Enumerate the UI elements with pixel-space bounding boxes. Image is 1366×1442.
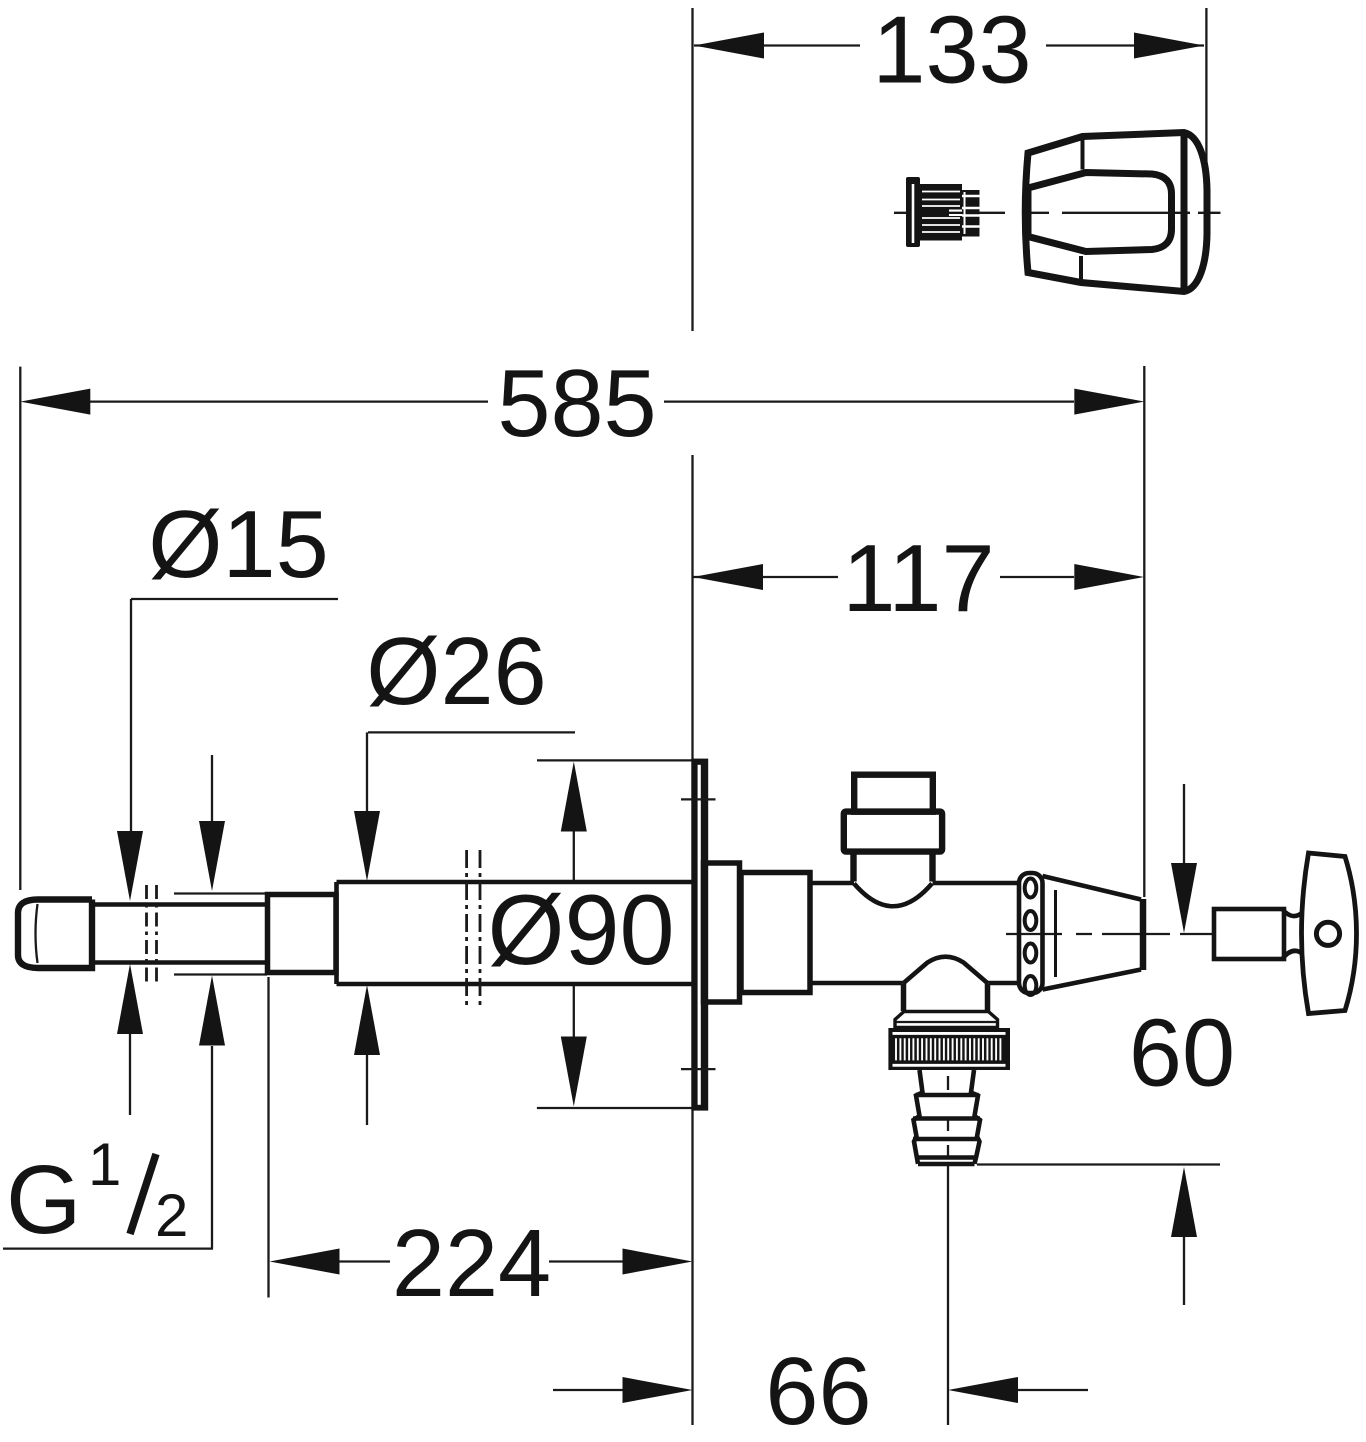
- break lines D26 pipe: [467, 850, 480, 1008]
- break lines left pipe: [147, 885, 157, 984]
- svg-text:224: 224: [392, 1211, 551, 1317]
- svg-text:66: 66: [765, 1339, 871, 1442]
- knurled nut: [888, 1028, 1010, 1070]
- label D15 with leader: [117, 492, 338, 1115]
- cartridge body: [920, 184, 962, 241]
- dimension D90: [487, 760, 694, 1108]
- svg-text:133: 133: [872, 0, 1031, 104]
- bottom branch arch: [903, 957, 988, 984]
- dimension 585: [20, 351, 1144, 897]
- bushing 2: [741, 873, 810, 993]
- knob grip recess: [1028, 173, 1172, 252]
- svg-text:Ø90: Ø90: [487, 874, 674, 985]
- ball race: [1019, 873, 1043, 995]
- bushing 1: [704, 863, 740, 1002]
- bottom branch neck: [904, 984, 988, 1012]
- svg-text:Ø26: Ø26: [366, 619, 547, 725]
- hose barb: [913, 1070, 980, 1164]
- top branch ring: [844, 812, 942, 852]
- cartridge flange: [906, 177, 920, 247]
- svg-text:1: 1: [88, 1131, 121, 1198]
- knob outline: [1025, 133, 1207, 292]
- key neck: [1283, 910, 1303, 958]
- step block: [268, 895, 337, 973]
- wall centerline: [691, 8, 693, 1425]
- svg-text:Ø15: Ø15: [148, 492, 329, 598]
- chamfer ring: [895, 1012, 998, 1028]
- dimension 60: [977, 784, 1235, 1305]
- detail centerline: [894, 212, 1221, 214]
- pipe D15: [92, 905, 268, 963]
- wall flange: [681, 759, 716, 1111]
- thread crest lines: [174, 894, 267, 975]
- svg-text:60: 60: [1129, 1001, 1235, 1107]
- dimension 66: [553, 1339, 1088, 1442]
- dimension 133: [694, 0, 1206, 215]
- top branch neck: [854, 852, 933, 882]
- top branch socket arch: [854, 884, 932, 907]
- svg-text:117: 117: [842, 526, 994, 632]
- dimension 224: [269, 977, 693, 1317]
- key shaft: [1214, 909, 1284, 959]
- end cap: [18, 900, 92, 969]
- pipe D26: [337, 882, 695, 984]
- top branch block: [854, 775, 933, 812]
- dimension 117: [693, 526, 1144, 632]
- valve body: [810, 883, 1019, 983]
- cartridge tip: [962, 190, 980, 237]
- key T-handle: [1302, 853, 1357, 1014]
- hose outlet centerline: [947, 1076, 949, 1425]
- svg-text:G: G: [6, 1145, 81, 1254]
- outlet cone: [1043, 876, 1144, 990]
- main axis centerline right: [1006, 933, 1213, 935]
- label G 1/2 with leader: [3, 755, 225, 1254]
- label D26 with leader: [354, 619, 575, 1125]
- svg-text:585: 585: [497, 351, 656, 457]
- svg-text:2: 2: [155, 1182, 188, 1249]
